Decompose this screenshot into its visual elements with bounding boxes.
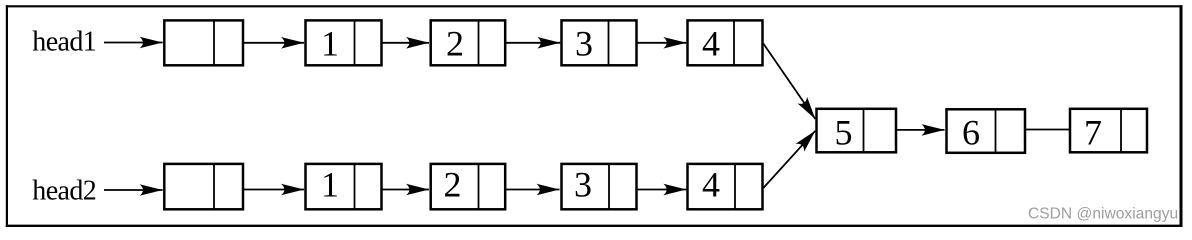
node shared value 6 xyxy=(947,109,1026,153)
svg-text:3: 3 xyxy=(575,24,593,64)
arrow list1 node 1 to node 2 xyxy=(382,42,430,44)
svg-text:1: 1 xyxy=(321,164,339,204)
arrow list1 node 4 to shared node 5 (diagonal down) xyxy=(763,44,815,120)
node list1 value 2 xyxy=(431,20,506,65)
node list1 head (empty) xyxy=(164,20,243,65)
arrow list1 head to node 1 xyxy=(243,42,304,44)
arrow head2 to list2 head node xyxy=(104,189,163,191)
svg-text:4: 4 xyxy=(702,24,720,64)
node list2 value 1 xyxy=(306,164,382,209)
svg-text:head2: head2 xyxy=(32,176,96,207)
svg-text:2: 2 xyxy=(446,24,464,64)
node list1 value 1 xyxy=(306,20,382,65)
node list1 value 4 xyxy=(688,20,763,65)
watermark CSDN @niwoxiangyu xyxy=(1028,206,1178,223)
node list2 value 3 xyxy=(562,164,637,209)
arrow list1 node 3 to node 4 xyxy=(637,42,687,44)
svg-text:6: 6 xyxy=(962,113,980,153)
arrow list2 node 3 to node 4 xyxy=(637,189,687,191)
node shared value 7 xyxy=(1070,109,1147,153)
arrow list1 node 2 to node 3 xyxy=(505,42,560,44)
node list2 value 2 xyxy=(431,164,506,209)
label head1 xyxy=(32,26,96,57)
arrow list2 node 4 to shared node 5 (diagonal up) xyxy=(763,131,815,188)
node list2 value 4 xyxy=(688,164,763,209)
svg-text:2: 2 xyxy=(444,164,462,204)
svg-text:1: 1 xyxy=(321,24,339,64)
arrow list2 node 2 to node 3 xyxy=(505,189,559,191)
svg-text:3: 3 xyxy=(574,164,592,204)
wire node 6 to node 7 (plain line) xyxy=(1025,129,1070,131)
svg-text:5: 5 xyxy=(835,113,853,153)
arrow list2 head to node 1 xyxy=(243,189,304,191)
arrow head1 to list1 head node xyxy=(104,42,163,44)
svg-text:head1: head1 xyxy=(32,26,96,57)
node list1 value 3 xyxy=(562,20,637,65)
node list2 head (empty) xyxy=(164,164,243,209)
svg-text:4: 4 xyxy=(702,164,720,204)
svg-text:7: 7 xyxy=(1084,113,1102,153)
label head2 xyxy=(32,176,96,207)
svg-text:CSDN @niwoxiangyu: CSDN @niwoxiangyu xyxy=(1028,206,1178,223)
arrow node 5 to node 6 xyxy=(896,129,945,131)
arrow list2 node 1 to node 2 xyxy=(382,189,430,191)
node shared value 5 xyxy=(817,109,897,153)
